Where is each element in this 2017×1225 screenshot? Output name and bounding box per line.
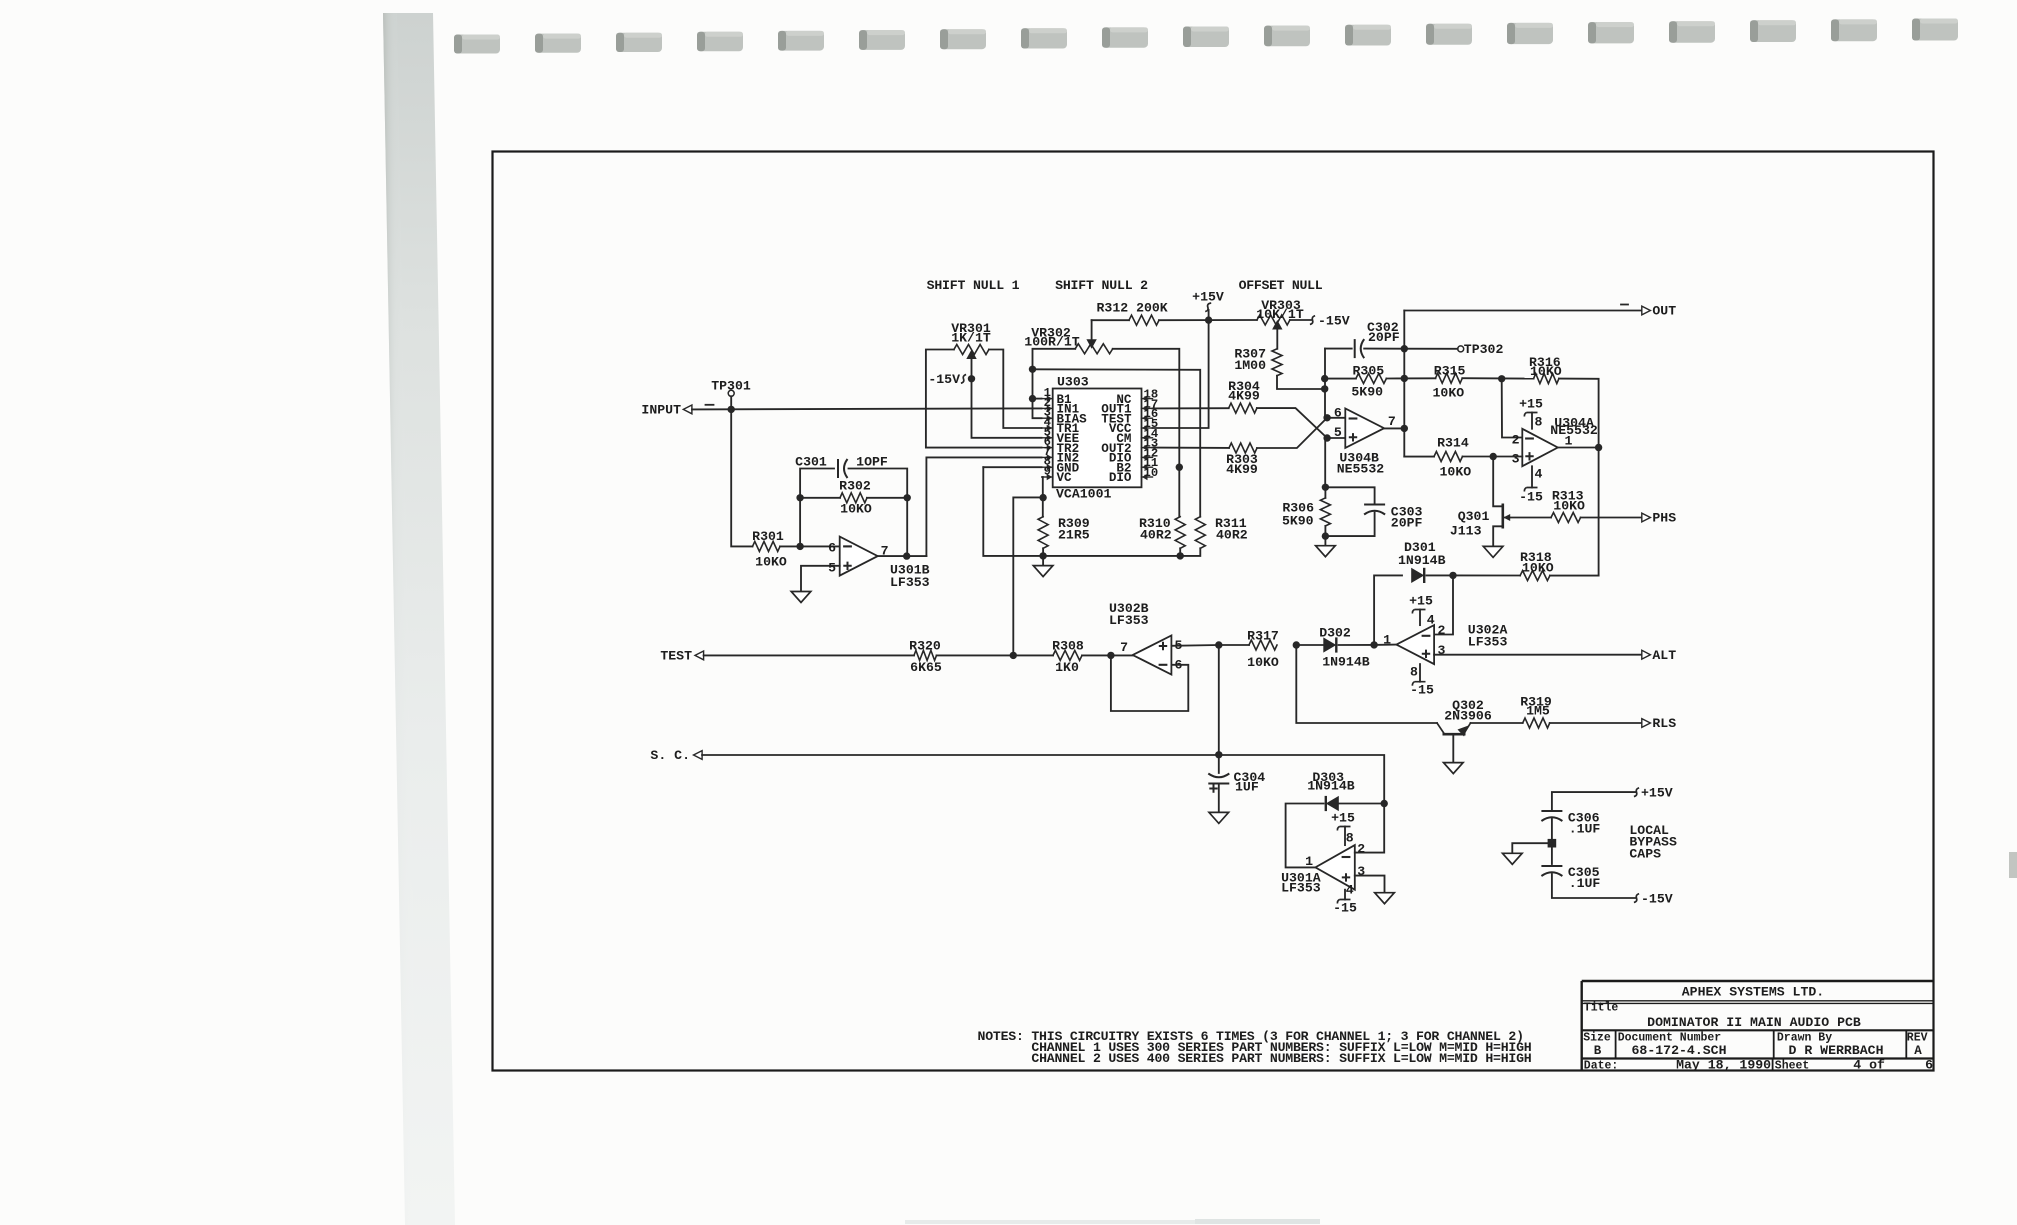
svg-text:R301: R301 bbox=[752, 529, 784, 544]
svg-text:RLS: RLS bbox=[1652, 716, 1676, 731]
junction S.C./C304 bbox=[1215, 751, 1222, 758]
svg-text:PHS: PHS bbox=[1652, 511, 1676, 526]
svg-text:TP302: TP302 bbox=[1464, 342, 1504, 357]
svg-text:-15V: -15V bbox=[928, 372, 960, 387]
svg-text:2: 2 bbox=[1438, 623, 1446, 638]
resistor R309 bbox=[1038, 517, 1048, 549]
svg-text:10KO: 10KO bbox=[1522, 561, 1554, 576]
wire R309 bottom to bus bbox=[1042, 548, 1044, 556]
svg-text:.1UF: .1UF bbox=[1569, 876, 1601, 891]
U303 left pin stubs bbox=[1042, 398, 1053, 400]
svg-text:R317: R317 bbox=[1247, 629, 1279, 644]
testpoint TP301 bbox=[728, 390, 734, 396]
svg-text:R305: R305 bbox=[1353, 363, 1385, 378]
resistor R318 bbox=[1520, 571, 1550, 581]
junction R305/R315/OUT vertical bbox=[1401, 375, 1408, 382]
wire U304B output bbox=[1384, 427, 1404, 429]
svg-text:CAPS: CAPS bbox=[1629, 847, 1661, 862]
wire R316 to output vertical bbox=[1559, 379, 1599, 448]
wire R310 bottom to bus bbox=[1179, 548, 1181, 556]
U302A +15 supply pin 4 bbox=[1419, 610, 1421, 626]
title block column separators bbox=[1616, 1030, 1907, 1070]
U304A -15 supply pin 4 bbox=[1531, 466, 1533, 487]
wire Q301 drain bbox=[1493, 457, 1503, 507]
wire VR303 wiper down to R307 bbox=[1276, 328, 1278, 349]
svg-text:1OPF: 1OPF bbox=[856, 454, 888, 469]
wire B1 branch bbox=[1033, 398, 1042, 400]
ground at U301A pin3 bbox=[1375, 893, 1395, 904]
svg-text:1M00: 1M00 bbox=[1234, 358, 1266, 373]
INPUT connector bbox=[683, 405, 692, 414]
wire R307 bottom to inverting net bbox=[1277, 376, 1325, 389]
svg-text:3: 3 bbox=[1512, 451, 1520, 466]
junction U301B output/feedback bbox=[903, 552, 910, 559]
bottom edge faint streaks bbox=[905, 1220, 1235, 1224]
op-amp U304B bbox=[1345, 409, 1384, 448]
svg-text:10KO: 10KO bbox=[1530, 364, 1562, 379]
svg-text:NE5532: NE5532 bbox=[1550, 423, 1598, 438]
resistor R320 bbox=[914, 650, 937, 660]
svg-text:-15: -15 bbox=[1519, 489, 1543, 504]
resistor R308 bbox=[1053, 650, 1082, 660]
svg-text:3: 3 bbox=[1357, 864, 1365, 879]
svg-text:R320: R320 bbox=[909, 638, 941, 653]
wire GND pin to bus bbox=[983, 466, 1041, 468]
svg-text:Sheet: Sheet bbox=[1775, 1059, 1810, 1072]
wire D301 to junction bbox=[1427, 574, 1454, 576]
-15V terminal on R312 row bbox=[1290, 319, 1311, 321]
wire ALT row bbox=[1434, 654, 1642, 656]
svg-text:SHIFT NULL 1: SHIFT NULL 1 bbox=[927, 278, 1020, 293]
svg-text:R315: R315 bbox=[1434, 363, 1466, 378]
svg-text:4K99: 4K99 bbox=[1228, 389, 1260, 404]
resistor R303 bbox=[1229, 443, 1257, 453]
ground below Q302 bbox=[1444, 763, 1464, 774]
svg-text:2: 2 bbox=[1512, 433, 1520, 448]
resistor R307 bbox=[1272, 349, 1282, 376]
svg-text:2: 2 bbox=[1357, 842, 1365, 857]
svg-text:D R WERRBACH: D R WERRBACH bbox=[1789, 1043, 1884, 1058]
svg-text:R312 200K: R312 200K bbox=[1097, 300, 1168, 315]
junction U302B output/feedback bbox=[1107, 652, 1114, 659]
wire C301 to right feedback branch bbox=[849, 469, 908, 557]
svg-text:D302: D302 bbox=[1319, 626, 1351, 641]
svg-text:8: 8 bbox=[1410, 665, 1418, 680]
resistor R313 bbox=[1551, 513, 1581, 523]
wire U304A output bbox=[1558, 447, 1599, 449]
svg-text:5K90: 5K90 bbox=[1351, 385, 1383, 400]
wire R305 row left bbox=[1325, 378, 1356, 380]
svg-text:LF353: LF353 bbox=[890, 575, 930, 590]
transistor Q302 bbox=[1437, 723, 1445, 734]
capacitor C306 bbox=[1541, 810, 1562, 812]
wire pin6 node to opamp bbox=[1327, 417, 1345, 419]
wire R318 to output vertical bbox=[1550, 575, 1599, 577]
wire R312 to VR303 bbox=[1159, 319, 1257, 321]
resistor R302 bbox=[840, 493, 867, 503]
wire U302B feedback loop bbox=[1111, 655, 1188, 711]
resistor R306 bbox=[1320, 498, 1330, 526]
svg-text:10KO: 10KO bbox=[755, 555, 787, 570]
wire Q302 to R319 bbox=[1471, 722, 1523, 724]
svg-text:21R5: 21R5 bbox=[1058, 528, 1090, 543]
svg-text:J113: J113 bbox=[1450, 524, 1482, 539]
svg-text:U303: U303 bbox=[1057, 374, 1089, 389]
svg-text:LF353: LF353 bbox=[1281, 880, 1321, 895]
resistor R310 bbox=[1175, 517, 1185, 549]
U303 right pin stubs bbox=[1142, 398, 1153, 400]
svg-text:B: B bbox=[1594, 1044, 1602, 1058]
wire C305 to -15V bbox=[1552, 874, 1636, 898]
svg-text:NE5532: NE5532 bbox=[1337, 462, 1385, 477]
svg-text:7: 7 bbox=[1388, 414, 1396, 429]
svg-text:.1UF: .1UF bbox=[1569, 821, 1601, 836]
junction U304B pin5 node bbox=[1323, 434, 1330, 441]
potentiometer VR301 bbox=[954, 345, 989, 355]
resistor R312 bbox=[1129, 315, 1159, 325]
ground at bypass caps bbox=[1503, 853, 1523, 864]
junction R302 row left bbox=[796, 494, 803, 501]
wire C304 to ground bbox=[1218, 784, 1220, 813]
wire S.C. row bbox=[702, 755, 1384, 804]
wire VC pin down to R309 bbox=[1042, 477, 1044, 517]
svg-text:ALT: ALT bbox=[1652, 648, 1676, 663]
svg-text:4: 4 bbox=[1427, 613, 1435, 628]
wire R314 to U304A pin3 bbox=[1463, 456, 1523, 458]
resistor R305 bbox=[1356, 374, 1387, 384]
capacitor C305 bbox=[1541, 865, 1562, 867]
wire R302 row right bbox=[867, 497, 907, 499]
wire R301 to U301B pin6 bbox=[780, 545, 840, 547]
wire INPUT net bbox=[692, 408, 1042, 409]
svg-text:5: 5 bbox=[828, 560, 836, 575]
potentiometer VR302 bbox=[1075, 344, 1113, 354]
svg-text:May 18, 1990: May 18, 1990 bbox=[1676, 1058, 1771, 1073]
ground below R306 bbox=[1316, 546, 1336, 557]
svg-text:4 of: 4 of bbox=[1853, 1058, 1885, 1073]
svg-text:10: 10 bbox=[1144, 466, 1159, 480]
svg-text:4: 4 bbox=[1535, 466, 1543, 481]
wire U302B plus input to R317 row bbox=[1171, 644, 1249, 647]
resistor R315 bbox=[1436, 373, 1463, 383]
title block row line 2 bbox=[1582, 1029, 1934, 1031]
junction inverting net/R305 row bbox=[1321, 375, 1328, 382]
junction D301/R318/U302A pin2 bbox=[1449, 572, 1456, 579]
wire OUT row bbox=[1404, 310, 1642, 312]
svg-text:6: 6 bbox=[1925, 1058, 1933, 1073]
junction R307/inverting net bbox=[1321, 385, 1328, 392]
svg-text:CHANNEL 2 USES 400 SERIES PART: CHANNEL 2 USES 400 SERIES PART NUMBERS: … bbox=[1031, 1051, 1531, 1066]
svg-text:10KO: 10KO bbox=[840, 501, 872, 516]
wire RLS branch down from D302 node bbox=[1296, 645, 1437, 723]
svg-text:1: 1 bbox=[1305, 854, 1313, 869]
svg-text:-15: -15 bbox=[1410, 682, 1434, 697]
wire OUT vertical bbox=[1403, 311, 1405, 457]
wire output vertical down to R318 bbox=[1598, 448, 1600, 576]
junction U304B pin6 node bbox=[1323, 414, 1330, 421]
svg-text:OFFSET NULL: OFFSET NULL bbox=[1239, 278, 1323, 293]
wire VR302 right terminal down to B2/R310 bbox=[1113, 349, 1180, 517]
svg-text:1N914B: 1N914B bbox=[1398, 553, 1446, 568]
wire R319 to RLS bbox=[1550, 722, 1642, 724]
resistor R319 bbox=[1523, 718, 1550, 728]
svg-text:DOMINATOR II MAIN AUDIO PCB: DOMINATOR II MAIN AUDIO PCB bbox=[1647, 1015, 1861, 1030]
capacitor C303 bbox=[1364, 504, 1385, 506]
svg-text:REV: REV bbox=[1907, 1032, 1928, 1045]
resistor R304 bbox=[1229, 403, 1257, 413]
binder holes bbox=[454, 35, 500, 54]
svg-text:INPUT: INPUT bbox=[641, 402, 681, 417]
junction U304B output/OUT vertical bbox=[1401, 425, 1408, 432]
wire bypass junction to ground bbox=[1512, 843, 1552, 853]
svg-text:7: 7 bbox=[1120, 640, 1128, 655]
wire OUT2 row bbox=[1153, 447, 1230, 449]
wire D301 row left vertical bbox=[1374, 575, 1402, 645]
svg-text:S. C.: S. C. bbox=[650, 748, 690, 763]
right page-edge mark bbox=[2009, 852, 2017, 878]
transistor Q301 bbox=[1502, 504, 1505, 529]
svg-text:Q301: Q301 bbox=[1458, 509, 1490, 524]
wire noninverting net vertical lower bbox=[1324, 438, 1326, 487]
svg-text:10KO: 10KO bbox=[1553, 499, 1585, 514]
svg-text:+15: +15 bbox=[1409, 593, 1433, 608]
OUT connector bbox=[1642, 306, 1651, 315]
svg-text:+15: +15 bbox=[1519, 397, 1543, 412]
wire R320 to VC-branch junction bbox=[937, 654, 1054, 656]
svg-text:20PF: 20PF bbox=[1391, 516, 1423, 531]
wire +15V to C306 bbox=[1552, 792, 1636, 810]
wire D302 anode to R317 bbox=[1296, 644, 1324, 646]
svg-text:OUT: OUT bbox=[1652, 304, 1676, 319]
svg-text:Size: Size bbox=[1583, 1032, 1611, 1045]
svg-text:-15: -15 bbox=[1333, 900, 1357, 915]
svg-text:SHIFT NULL 2: SHIFT NULL 2 bbox=[1055, 278, 1148, 293]
wire VCC vertical to U303 pin15 bbox=[1153, 320, 1209, 428]
ground at bus bbox=[1042, 556, 1044, 566]
wire R315 to R316 bbox=[1462, 377, 1533, 379]
junction R302 row right bbox=[904, 494, 911, 501]
wire U302A... D303 pin2 feedback bbox=[1355, 804, 1384, 853]
-15V tap at VR301 wiper bbox=[961, 375, 966, 384]
junction R306/C303 bottom bbox=[1322, 532, 1329, 539]
svg-text:100R/1T: 100R/1T bbox=[1024, 334, 1079, 349]
svg-text:1N914B: 1N914B bbox=[1322, 654, 1370, 669]
wire C306 to ground junction bbox=[1551, 819, 1553, 864]
svg-text:4: 4 bbox=[1346, 882, 1354, 897]
diode D301 bbox=[1411, 568, 1424, 583]
-15V supply local bypass bbox=[1634, 894, 1639, 903]
wire R304 to X crossing to U304B pin5 bbox=[1257, 408, 1327, 438]
+15V supply symbol bbox=[1208, 310, 1210, 320]
polarity dash near OUT bbox=[1621, 304, 1628, 306]
junction VC/R309/TEST branch bbox=[1039, 494, 1046, 501]
resistor R311 bbox=[1195, 517, 1205, 549]
svg-text:-15V: -15V bbox=[1318, 314, 1350, 329]
wire VC net to TEST vertical bbox=[1013, 497, 1043, 655]
svg-text:40R2: 40R2 bbox=[1216, 528, 1248, 543]
C304 plus mark bbox=[1209, 784, 1217, 792]
wire C304 branch down bbox=[1218, 645, 1220, 773]
wire R314 row bbox=[1404, 456, 1434, 458]
wire Q301 source to ground bbox=[1493, 526, 1503, 546]
svg-text:40R2: 40R2 bbox=[1140, 528, 1172, 543]
op-amp U302B bbox=[1133, 636, 1172, 675]
junction R317/D302/RLS branch bbox=[1293, 641, 1300, 648]
wire R318 row bbox=[1453, 574, 1520, 576]
title block row line 3 bbox=[1582, 1057, 1934, 1059]
svg-text:5: 5 bbox=[1334, 425, 1342, 440]
capacitor C302 bbox=[1354, 339, 1356, 358]
wire R306 bottom bbox=[1324, 526, 1326, 546]
svg-text:+15V: +15V bbox=[1641, 786, 1673, 801]
ground at U301B plus input bbox=[791, 592, 811, 603]
wire C303 bottom branch bbox=[1325, 513, 1374, 537]
wire VR301 left terminal to U303 TR2 bbox=[926, 350, 1042, 448]
wire U304A pin2 from R315/R316 node bbox=[1502, 379, 1523, 438]
junction R306/C303 top bbox=[1322, 484, 1329, 491]
resistor R314 bbox=[1434, 452, 1463, 462]
svg-text:6: 6 bbox=[1334, 406, 1342, 421]
wire VR301 wiper to VEE bbox=[972, 357, 1042, 438]
wire OUT1 row bbox=[1153, 407, 1229, 409]
U301A +15 supply pin 8 bbox=[1344, 827, 1346, 846]
svg-text:TEST: TEST bbox=[660, 649, 692, 664]
junction U304A output/R316 bbox=[1595, 444, 1602, 451]
diode D303 bbox=[1326, 796, 1339, 811]
junction TEST/VC branch bbox=[1010, 652, 1017, 659]
svg-text:5K90: 5K90 bbox=[1282, 513, 1314, 528]
wire C302 to TP302 bbox=[1364, 348, 1458, 350]
svg-text:6K65: 6K65 bbox=[910, 660, 942, 675]
junction BIAS net / R311 feed bbox=[1029, 366, 1036, 373]
svg-text:APHEX SYSTEMS LTD.: APHEX SYSTEMS LTD. bbox=[1682, 985, 1824, 1000]
ground at Q301 source bbox=[1483, 546, 1503, 557]
svg-text:Date:: Date: bbox=[1584, 1059, 1619, 1072]
wire R308 to U302B output bbox=[1082, 654, 1133, 656]
junction R310/bus bbox=[1177, 552, 1184, 559]
wire R306 top bbox=[1324, 487, 1326, 498]
svg-text:8: 8 bbox=[1535, 414, 1543, 429]
wire C303 top branch bbox=[1325, 487, 1374, 503]
wire Q301 gate to R313 bbox=[1510, 517, 1551, 519]
S.C. connector bbox=[694, 751, 703, 760]
svg-text:4K99: 4K99 bbox=[1226, 462, 1258, 477]
wire U302A pin2 feedback bbox=[1434, 575, 1453, 634]
svg-text:10KO: 10KO bbox=[1440, 464, 1472, 479]
wire U301B output bbox=[878, 555, 927, 557]
svg-text:DIO: DIO bbox=[1109, 471, 1132, 485]
svg-text:2N3906: 2N3906 bbox=[1444, 708, 1492, 723]
op-amp U301A bbox=[1315, 845, 1354, 890]
title block outline bbox=[1582, 981, 1934, 1071]
svg-text:VCA1001: VCA1001 bbox=[1056, 487, 1111, 502]
wire R312 row bbox=[1092, 319, 1129, 321]
wire U302A output to D302 node bbox=[1374, 644, 1396, 646]
wire D303 cathode to U301A output bbox=[1286, 804, 1324, 868]
wire inverting net vertical upper bbox=[1324, 349, 1326, 418]
diode D302 bbox=[1323, 637, 1336, 652]
wire Q302 emitter to ground bbox=[1452, 734, 1454, 762]
wire VR302 wiper up to R312 row bbox=[1091, 320, 1093, 341]
svg-text:68-172-4.SCH: 68-172-4.SCH bbox=[1632, 1043, 1727, 1058]
wire D302 cathode to U302A bbox=[1339, 644, 1375, 646]
wire BIAS net over U303 to R311 bbox=[1033, 369, 1201, 516]
svg-text:LF353: LF353 bbox=[1468, 634, 1508, 649]
U301A -15 supply pin 4 bbox=[1344, 890, 1346, 900]
potentiometer VR303 bbox=[1257, 315, 1290, 325]
wire D303 anode from junction bbox=[1338, 803, 1384, 805]
junction R315/R316/U304A pin2 bbox=[1498, 375, 1505, 382]
wire R302 row left bbox=[800, 497, 840, 499]
junction U302A output/D301 bbox=[1370, 641, 1377, 648]
junction pin3/Q301 drain bbox=[1490, 453, 1497, 460]
svg-text:LF353: LF353 bbox=[1109, 613, 1149, 628]
resistor R301 bbox=[753, 541, 781, 551]
junction R301/feedback bbox=[796, 543, 803, 550]
wire R303 to X crossing to U304B pin6 bbox=[1257, 418, 1327, 448]
resistor R317 bbox=[1249, 640, 1277, 650]
wire R305 to R315 bbox=[1386, 377, 1435, 379]
capacitor C304 bbox=[1208, 783, 1229, 785]
wire pin5 node to opamp bbox=[1327, 437, 1345, 439]
op-amp U302A bbox=[1396, 625, 1434, 664]
PHS connector bbox=[1642, 513, 1651, 522]
wire VR302 left terminal to B1/BIAS bbox=[1033, 349, 1076, 418]
ALT connector bbox=[1642, 650, 1651, 659]
junction bypass ground bbox=[1548, 839, 1557, 848]
wire C302 row left bbox=[1325, 348, 1352, 350]
svg-text:R308: R308 bbox=[1052, 638, 1084, 653]
resistor R316 bbox=[1534, 374, 1559, 384]
svg-text:A: A bbox=[1914, 1044, 1922, 1058]
junction TP301/INPUT bbox=[728, 406, 735, 413]
junction S.C./D303 feedback bbox=[1381, 800, 1388, 807]
svg-text:20PF: 20PF bbox=[1368, 330, 1400, 345]
svg-text:9: 9 bbox=[1044, 465, 1051, 479]
+15V supply local bypass bbox=[1634, 788, 1639, 797]
RLS connector bbox=[1642, 719, 1651, 728]
svg-text:3: 3 bbox=[1438, 643, 1446, 658]
svg-text:6: 6 bbox=[828, 540, 836, 555]
schematic border frame bbox=[493, 152, 1934, 1071]
svg-text:1K0: 1K0 bbox=[1055, 660, 1079, 675]
junction R317 row / C304 branch bbox=[1215, 641, 1222, 648]
wire U301B output up to U303 IN2 bbox=[926, 457, 1041, 556]
capacitor C301 bbox=[837, 459, 839, 478]
svg-text:1K/1T: 1K/1T bbox=[951, 331, 991, 346]
svg-text:1N914B: 1N914B bbox=[1307, 779, 1355, 794]
TEST connector bbox=[695, 651, 704, 660]
wire feedback left branch (C301/R302) bbox=[800, 469, 834, 547]
U302A -15 supply pin 8 bbox=[1419, 664, 1421, 682]
wire TEST row left bbox=[704, 654, 914, 656]
svg-text:R314: R314 bbox=[1437, 435, 1469, 450]
wire TP301 stem down to R301 bbox=[731, 396, 752, 546]
junction R309/ground bbox=[1039, 552, 1046, 559]
wire ground bus bbox=[983, 467, 1200, 556]
wire U301A pin3 to ground bbox=[1355, 876, 1385, 893]
op-amp U304A bbox=[1522, 429, 1558, 466]
svg-text:1M5: 1M5 bbox=[1526, 704, 1550, 719]
ground below C304 bbox=[1209, 812, 1229, 823]
IC U303 body bbox=[1053, 389, 1142, 488]
svg-text:Title: Title bbox=[1584, 1002, 1619, 1015]
svg-text:+15: +15 bbox=[1331, 810, 1355, 825]
op-amp U301B bbox=[840, 537, 878, 576]
wire R313 to PHS bbox=[1581, 517, 1642, 519]
junction +15V/VCC on R312 row bbox=[1205, 316, 1212, 323]
svg-text:R302: R302 bbox=[839, 478, 871, 493]
